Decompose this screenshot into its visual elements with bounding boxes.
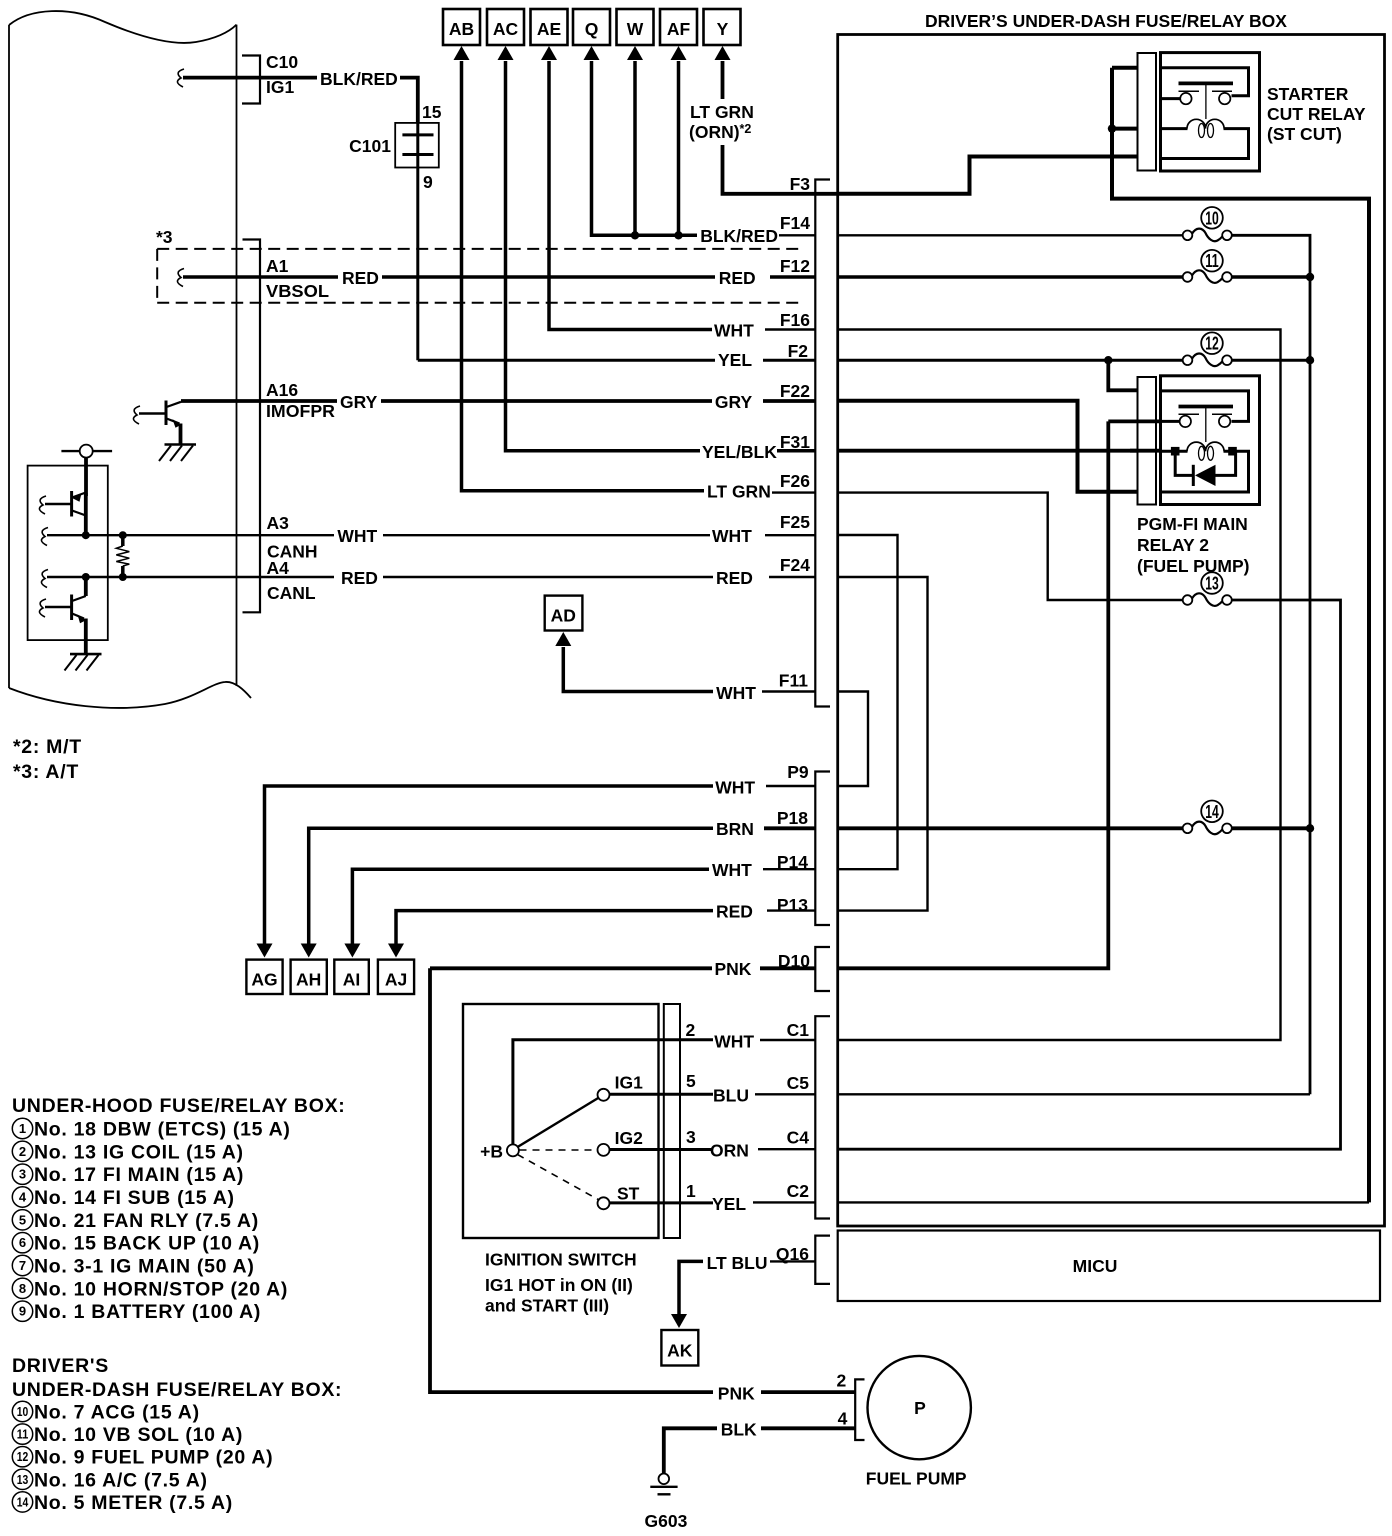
- svg-text:F3: F3: [790, 174, 811, 194]
- contact wrap: [1161, 68, 1249, 96]
- wire break squiggle C10: [177, 69, 184, 87]
- contact points: [1180, 93, 1191, 104]
- svg-text:4: 4: [838, 1409, 848, 1429]
- ground (CAN block): [65, 654, 102, 670]
- svg-text:WHT: WHT: [714, 321, 754, 341]
- starter cut relay connector bar: [1138, 53, 1157, 171]
- svg-text:PNK: PNK: [715, 959, 752, 979]
- svg-text:AG: AG: [251, 970, 277, 990]
- svg-text:No. 14 FI SUB (15 A): No. 14 FI SUB (15 A): [34, 1187, 235, 1209]
- svg-text:F24: F24: [780, 555, 810, 575]
- svg-text:AC: AC: [493, 19, 519, 39]
- wire AC to F31: [506, 61, 701, 451]
- wire C10 IG1 BLK/RED: [183, 76, 317, 80]
- svg-text:Y: Y: [717, 19, 729, 39]
- wire Y LT GRN to F3: [723, 61, 838, 194]
- svg-text:AI: AI: [343, 970, 361, 990]
- connector box Q: [573, 9, 697, 235]
- svg-text:C10: C10: [266, 52, 298, 72]
- svg-text:UNDER-DASH FUSE/RELAY BOX:: UNDER-DASH FUSE/RELAY BOX:: [12, 1379, 342, 1401]
- wire WHT stub P14: [763, 868, 815, 870]
- fuse 10: [1183, 207, 1232, 241]
- svg-text:BLK/RED: BLK/RED: [700, 226, 778, 246]
- fuel pump motor P: [868, 1356, 971, 1459]
- wire BRN stub P18: [764, 826, 815, 830]
- svg-text:IGNITION SWITCH: IGNITION SWITCH: [485, 1250, 637, 1270]
- wire WHT stub P9: [766, 785, 815, 787]
- svg-text:RED: RED: [719, 268, 756, 288]
- svg-text:F14: F14: [780, 213, 810, 233]
- wire RED to F12: [382, 275, 715, 279]
- coil: [1187, 442, 1224, 451]
- svg-text:10: 10: [1205, 208, 1219, 228]
- svg-text:A16: A16: [266, 380, 298, 400]
- svg-text:8: 8: [19, 1281, 26, 1296]
- svg-text:RED: RED: [716, 902, 753, 922]
- svg-text:13: 13: [17, 1472, 29, 1487]
- wire F3 to starter cut relay: [838, 157, 1138, 194]
- svg-text:ST: ST: [617, 1184, 640, 1204]
- wire LT BLU stub Q16: [770, 1260, 815, 1262]
- svg-text:9: 9: [423, 172, 433, 192]
- svg-text:IG1 HOT in ON (II): IG1 HOT in ON (II): [485, 1275, 633, 1295]
- ST contact: [518, 1155, 600, 1201]
- wire P9 WHT to AG: [265, 786, 714, 945]
- svg-text:*2: M/T: *2: M/T: [13, 736, 82, 758]
- box AJ: [378, 960, 414, 994]
- wire F16 to C1 column: [838, 330, 1281, 1041]
- svg-text:(ST CUT): (ST CUT): [1267, 124, 1342, 144]
- svg-text:C2: C2: [787, 1181, 810, 1201]
- wire AF to BLK/RED node: [677, 61, 681, 235]
- wire F22 to relay 2 coil return: [838, 401, 1138, 492]
- wire WHT stub F16: [765, 328, 815, 330]
- wire LT GRN stub F26: [772, 491, 815, 493]
- svg-text:2: 2: [837, 1371, 847, 1391]
- wire YEL stub F2: [763, 359, 815, 362]
- svg-text:F25: F25: [780, 512, 810, 532]
- wire P18 to fuse 14: [838, 826, 1183, 830]
- box AI: [334, 960, 369, 994]
- svg-text:3: 3: [19, 1167, 26, 1182]
- wire LT BLU to AK: [679, 1261, 703, 1316]
- wire fuse 14 out: [1232, 826, 1311, 830]
- ECM module torn-edge outline: [9, 11, 251, 708]
- wire break squiggle A1: [177, 269, 184, 287]
- wire PNK to fuel pump: [430, 968, 713, 1392]
- svg-text:No. 9 FUEL PUMP (20 A): No. 9 FUEL PUMP (20 A): [34, 1447, 273, 1469]
- svg-text:BLK/RED: BLK/RED: [320, 69, 398, 89]
- wire F26 to fuse 13: [838, 493, 1183, 600]
- svg-text:CANL: CANL: [267, 583, 316, 603]
- svg-text:No. 1 BATTERY (100 A): No. 1 BATTERY (100 A): [34, 1301, 261, 1323]
- contact wrap: [1161, 391, 1249, 422]
- svg-text:No. 5 METER (7.5 A): No. 5 METER (7.5 A): [34, 1492, 233, 1514]
- wire F25 to P14: [838, 535, 898, 869]
- connector box Y: [704, 9, 838, 194]
- wire C2 row to relay column: [838, 1201, 1369, 1203]
- svg-text:P9: P9: [787, 762, 809, 782]
- wire F14 to fuse 10: [838, 234, 1183, 236]
- svg-text:F22: F22: [780, 381, 810, 401]
- ignition switch box: [463, 1004, 659, 1238]
- wire YEL/BLK stub F31: [777, 449, 815, 453]
- transistor Q3 (IMOFPR driver): [133, 401, 181, 445]
- wire A16 GRY: [181, 399, 337, 403]
- wire F12 to fuse 11: [838, 275, 1183, 279]
- svg-text:11: 11: [1205, 251, 1219, 271]
- wire BLU stub C5: [755, 1093, 815, 1095]
- transistor Q2 (CANL): [39, 577, 86, 654]
- wire A1 VBSOL RED: [183, 275, 338, 279]
- wire F31 to relay 2 coil lead: [838, 449, 1138, 453]
- arrow into AJ: [388, 944, 404, 958]
- wire starter relay coil lead: [1112, 127, 1138, 131]
- svg-text:2: 2: [686, 1020, 696, 1040]
- svg-text:(FUEL PUMP): (FUEL PUMP): [1137, 556, 1249, 576]
- box AD: [545, 596, 583, 631]
- ignition switch connector bar: [664, 1004, 680, 1238]
- svg-text:WHT: WHT: [714, 1032, 754, 1052]
- svg-text:No. 17 FI MAIN (15 A): No. 17 FI MAIN (15 A): [34, 1164, 244, 1186]
- wire F11 to P9: [838, 692, 868, 787]
- svg-text:AB: AB: [449, 19, 474, 39]
- svg-text:ORN: ORN: [710, 1141, 749, 1161]
- wire RED stub P13: [767, 909, 815, 911]
- svg-text:GRY: GRY: [340, 392, 378, 412]
- svg-text:C4: C4: [787, 1128, 810, 1148]
- wire F24 to P13: [838, 577, 928, 911]
- contact bar: [1179, 405, 1234, 409]
- svg-text:CUT RELAY: CUT RELAY: [1267, 104, 1366, 124]
- svg-text:PGM-FI MAIN: PGM-FI MAIN: [1137, 514, 1248, 534]
- connector D bracket: [815, 947, 830, 991]
- IG1 contact: [518, 1098, 600, 1148]
- svg-text:F2: F2: [788, 341, 809, 361]
- connector box W: [617, 9, 654, 240]
- svg-text:No. 7 ACG (15 A): No. 7 ACG (15 A): [34, 1402, 200, 1424]
- connector box AE: [531, 9, 713, 330]
- svg-text:6: 6: [19, 1235, 26, 1250]
- connector P bracket: [815, 772, 830, 926]
- fuse 13: [1183, 572, 1232, 606]
- connector A bracket: [243, 240, 261, 613]
- svg-text:P18: P18: [777, 808, 808, 828]
- svg-text:C5: C5: [787, 1073, 810, 1093]
- svg-text:WHT: WHT: [337, 526, 377, 546]
- contact points: [1180, 416, 1191, 427]
- wire P14 WHT to AI: [352, 869, 709, 944]
- resistor (CAN terminator): [116, 535, 129, 577]
- junction dot coil lead: [1108, 124, 1116, 132]
- svg-text:+B: +B: [480, 1142, 503, 1162]
- PGM-FI main relay 2 connector bar: [1138, 377, 1157, 505]
- wire BLK/RED to C101: [400, 78, 418, 122]
- svg-text:No. 13 IG COIL (15 A): No. 13 IG COIL (15 A): [34, 1141, 244, 1163]
- svg-text:P: P: [914, 1398, 926, 1418]
- svg-text:DRIVER’S UNDER-DASH FUSE/RELAY: DRIVER’S UNDER-DASH FUSE/RELAY BOX: [925, 11, 1287, 31]
- svg-text:AK: AK: [667, 1341, 693, 1361]
- svg-text:A1: A1: [266, 256, 289, 276]
- MICU box: [838, 1231, 1380, 1302]
- svg-text:IMOFPR: IMOFPR: [266, 401, 335, 421]
- svg-text:LT GRN: LT GRN: [690, 102, 754, 122]
- svg-text:G603: G603: [645, 1511, 688, 1531]
- connector C bracket: [815, 1016, 830, 1218]
- svg-text:15: 15: [422, 102, 442, 122]
- wire starter relay common to C2 column: [1112, 68, 1369, 1203]
- wire BLK/RED stub F14: [779, 234, 815, 236]
- svg-text:RED: RED: [342, 268, 379, 288]
- svg-text:VBSOL: VBSOL: [266, 281, 329, 301]
- fuse 14: [1183, 801, 1232, 835]
- wire RED to F24: [383, 576, 713, 578]
- svg-text:10: 10: [17, 1404, 29, 1419]
- svg-text:C1: C1: [787, 1020, 810, 1040]
- wire AB to F26: [462, 61, 705, 491]
- svg-text:5: 5: [686, 1071, 696, 1091]
- svg-text:P13: P13: [777, 895, 808, 915]
- fuse/relay box outline: [838, 35, 1385, 1227]
- svg-text:FUEL PUMP: FUEL PUMP: [866, 1469, 967, 1489]
- svg-text:12: 12: [1205, 334, 1219, 354]
- svg-text:PNK: PNK: [718, 1384, 755, 1404]
- wire break squiggle CANL: [41, 570, 48, 588]
- wire A3 CANH: [47, 534, 334, 536]
- svg-text:IG2: IG2: [615, 1128, 643, 1148]
- svg-text:1: 1: [686, 1181, 696, 1201]
- svg-text:F12: F12: [780, 256, 810, 276]
- svg-text:RED: RED: [341, 568, 378, 588]
- PGM-FI main relay 2 (fuel pump): [1161, 376, 1260, 505]
- svg-text:AF: AF: [667, 19, 691, 39]
- svg-text:F11: F11: [779, 671, 808, 691]
- svg-text:No. 15 BACK UP (10 A): No. 15 BACK UP (10 A): [34, 1233, 260, 1255]
- svg-text:14: 14: [17, 1494, 29, 1509]
- wire P18 BRN to AH: [309, 828, 713, 944]
- svg-text:WHT: WHT: [716, 683, 756, 703]
- svg-text:IG1: IG1: [266, 77, 294, 97]
- box AH: [291, 960, 327, 994]
- connector F bracket: [815, 180, 830, 707]
- wire relay 2 contact lead to D10: [838, 421, 1109, 968]
- wire ORN stub C4: [758, 1148, 815, 1150]
- svg-text:A4: A4: [267, 558, 290, 578]
- svg-text:No. 16 A/C (7.5 A): No. 16 A/C (7.5 A): [34, 1469, 208, 1491]
- svg-text:WHT: WHT: [712, 860, 752, 880]
- ignition switch internals: [480, 1040, 713, 1210]
- connector box AC: [487, 9, 700, 451]
- coil: [1187, 119, 1224, 128]
- wire D10 PNK long run to fuel pump column: [430, 966, 712, 970]
- svg-text:No. 10 HORN/STOP (20 A): No. 10 HORN/STOP (20 A): [34, 1278, 288, 1300]
- CAN driver inner box: [28, 466, 108, 640]
- svg-text:GRY: GRY: [715, 392, 753, 412]
- junction dots CANH: [82, 531, 90, 539]
- wire Q to F14: [592, 61, 698, 235]
- svg-text:W: W: [627, 19, 644, 39]
- svg-text:F16: F16: [780, 310, 810, 330]
- svg-text:WHT: WHT: [712, 526, 752, 546]
- arrow into AK: [671, 1314, 687, 1328]
- fuse 12: [1183, 332, 1232, 366]
- wire relay 2 contact lead (over bar): [1108, 419, 1160, 423]
- svg-text:No. 3-1 IG MAIN (50 A): No. 3-1 IG MAIN (50 A): [34, 1256, 255, 1278]
- junction dots CANL: [82, 573, 90, 581]
- svg-text:2: 2: [19, 1144, 26, 1159]
- wire fuse 10 to C5 column: [1232, 235, 1311, 1094]
- svg-text:No. 10 VB SOL (10 A): No. 10 VB SOL (10 A): [34, 1424, 243, 1446]
- wire YEL stub C2: [753, 1201, 815, 1203]
- svg-text:AH: AH: [296, 970, 321, 990]
- wire GRY stub F22: [763, 399, 815, 403]
- wire AE to F16: [549, 61, 712, 330]
- wire fuse 12 out: [1232, 359, 1311, 362]
- IG2 contact: [520, 1149, 598, 1151]
- svg-text:AJ: AJ: [385, 970, 407, 990]
- svg-text:11: 11: [17, 1427, 29, 1442]
- connector Q16 bracket: [815, 1236, 830, 1284]
- connector box AF: [660, 9, 697, 240]
- wire F31 coil lead (over bar): [1130, 449, 1161, 453]
- svg-text:4: 4: [19, 1190, 27, 1205]
- wire WHT stub F25: [765, 534, 815, 536]
- svg-text:1: 1: [19, 1121, 26, 1136]
- wire F2 branch to relay 2 contact wrap: [1108, 360, 1137, 390]
- svg-text:RED: RED: [716, 568, 753, 588]
- svg-text:LT GRN: LT GRN: [707, 482, 771, 502]
- wire WHT stub F11: [762, 690, 815, 692]
- wire F2 YEL from C101: [418, 359, 715, 362]
- svg-text:and START (III): and START (III): [485, 1296, 609, 1316]
- svg-text:13: 13: [1205, 574, 1219, 594]
- wire RED stub F24: [769, 576, 815, 578]
- svg-text:DRIVER'S: DRIVER'S: [12, 1355, 109, 1377]
- svg-text:F26: F26: [780, 471, 810, 491]
- wire P13 RED to AJ: [396, 911, 713, 945]
- connector box AB: [443, 9, 704, 491]
- capacitor C101: [349, 102, 442, 360]
- wire WHT to F25: [383, 534, 710, 536]
- arrow into AD: [555, 632, 571, 646]
- svg-text:LT BLU: LT BLU: [707, 1253, 768, 1273]
- ground G603: [650, 1474, 677, 1495]
- svg-text:IG1: IG1: [615, 1073, 643, 1093]
- node *3 dashed A/T box: [157, 249, 800, 303]
- svg-text:12: 12: [17, 1449, 29, 1464]
- svg-text:STARTER: STARTER: [1267, 84, 1349, 104]
- svg-text:YEL: YEL: [712, 1194, 746, 1214]
- wire break squiggle CANH: [41, 528, 48, 546]
- wire starter relay contact lead: [1112, 66, 1138, 70]
- svg-text:BRN: BRN: [716, 819, 754, 839]
- +B feed: [513, 1040, 713, 1145]
- box AK: [661, 1330, 698, 1366]
- svg-text:Q: Q: [585, 19, 599, 39]
- wire fuse 13 to C4 column: [838, 600, 1341, 1149]
- svg-text:No. 18 DBW (ETCS) (15 A): No. 18 DBW (ETCS) (15 A): [34, 1119, 291, 1141]
- wire C5 row: [838, 1093, 1310, 1095]
- CAN driver block supply node: [61, 445, 112, 496]
- svg-text:3: 3: [686, 1127, 696, 1147]
- svg-text:14: 14: [1205, 802, 1219, 822]
- wire RED stub F12: [770, 275, 815, 279]
- wire PNK stub D10: [760, 966, 815, 970]
- ground (A16 transistor emitter): [159, 445, 196, 462]
- starter cut relay ST CUT: [1161, 53, 1260, 171]
- contact bar: [1179, 82, 1234, 86]
- svg-text:AD: AD: [551, 606, 576, 626]
- coil junction squares: [1171, 447, 1180, 456]
- svg-text:UNDER-HOOD FUSE/RELAY BOX:: UNDER-HOOD FUSE/RELAY BOX:: [12, 1095, 346, 1117]
- wire WHT stub C1: [760, 1039, 815, 1041]
- box AG: [246, 960, 282, 994]
- wire F2 to fuse 12: [838, 359, 1183, 362]
- arrow into AH: [301, 944, 317, 958]
- wire fuse 11 out: [1232, 275, 1311, 279]
- connector C10 bracket: [242, 56, 260, 104]
- wire W to BLK/RED node: [633, 61, 637, 235]
- svg-text:MICU: MICU: [1073, 1256, 1118, 1276]
- svg-text:5: 5: [19, 1212, 26, 1227]
- svg-text:No. 21 FAN RLY (7.5 A): No. 21 FAN RLY (7.5 A): [34, 1210, 259, 1232]
- diode branch: [1175, 451, 1235, 475]
- fuel pump connector bracket: [855, 1379, 864, 1440]
- fuse 11: [1183, 250, 1232, 283]
- wire F11 WHT to AD: [563, 647, 713, 692]
- arrow into AG: [257, 944, 273, 958]
- svg-text:WHT: WHT: [715, 778, 755, 798]
- svg-text:AE: AE: [537, 19, 561, 39]
- svg-text:C101: C101: [349, 136, 391, 156]
- wire A4 CANL: [47, 576, 334, 578]
- svg-text:9: 9: [19, 1304, 26, 1319]
- wire BLK to ground: [761, 1426, 855, 1430]
- svg-text:*3: A/T: *3: A/T: [13, 761, 79, 783]
- svg-text:A3: A3: [267, 513, 290, 533]
- svg-text:YEL: YEL: [718, 350, 752, 370]
- svg-text:BLU: BLU: [713, 1086, 749, 1106]
- transistor Q1 (CANH): [39, 491, 85, 535]
- svg-text:YEL/BLK: YEL/BLK: [702, 442, 777, 462]
- svg-text:*3: *3: [156, 227, 173, 247]
- svg-text:RELAY 2: RELAY 2: [1137, 535, 1209, 555]
- svg-text:7: 7: [19, 1258, 26, 1273]
- svg-text:BLK: BLK: [721, 1420, 757, 1440]
- arrow into AI: [344, 944, 360, 958]
- wire GRY to F22: [381, 399, 712, 403]
